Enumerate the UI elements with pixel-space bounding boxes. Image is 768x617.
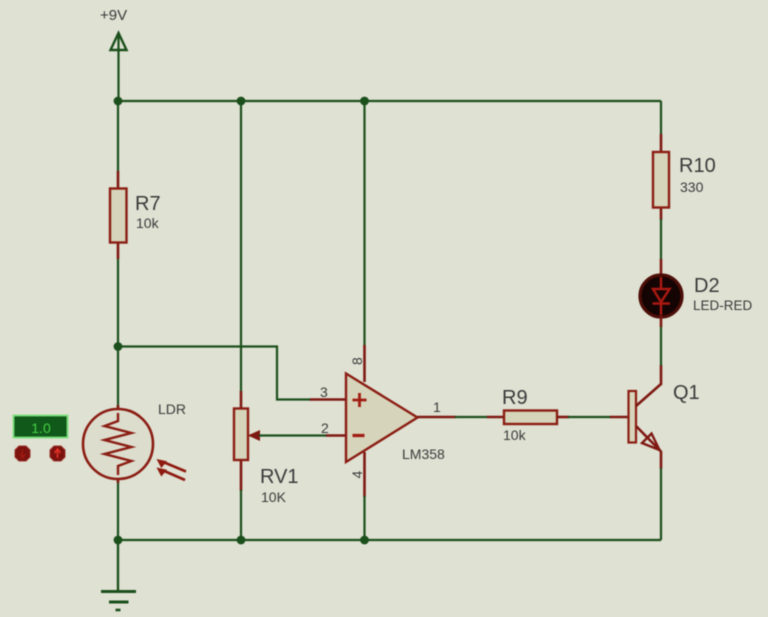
wire RV1 vertical upper [240,101,242,393]
button down [15,446,30,461]
ground [101,540,136,610]
svg-text:10k: 10k [503,427,527,443]
wire pin4 vertical [363,452,366,497]
wire bottom rail [118,539,661,541]
wire LED to collector [660,316,663,327]
svg-text:4: 4 [349,471,365,479]
power +9V arrow [111,33,127,50]
node junction bottom RV1 [237,536,246,545]
svg-text:10k: 10k [136,215,160,231]
svg-text:10K: 10K [261,489,287,505]
display 1.0 [14,416,68,438]
resistor R7 [110,171,127,259]
node junction bottom pin4 [360,536,369,545]
node junction rail pin8 [360,97,369,106]
svg-text:1.0: 1.0 [31,420,51,436]
LDR photoresistor [83,405,186,483]
svg-text:R9: R9 [502,387,528,409]
wire mid horizontal to pin3 [118,347,311,400]
node junction LDR top [114,342,123,351]
wire right vertical top [660,101,662,135]
wire R9 to base [557,416,569,419]
wire +9V stem [117,33,119,101]
svg-text:+9V: +9V [100,7,127,24]
resistor R9 [504,411,557,425]
node junction bottom-left [114,536,123,545]
svg-text:D2: D2 [694,275,720,297]
svg-text:RV1: RV1 [260,466,299,488]
svg-text:Q1: Q1 [673,382,700,404]
node junction top-left rail [114,97,123,106]
svg-text:3: 3 [320,384,328,400]
wire left vertical mid [117,259,119,410]
wire output pin1 [418,416,457,419]
op-amp U1 LM358 [346,374,418,463]
wire R10 to LED [660,219,662,260]
svg-text:R10: R10 [679,155,716,177]
potentiometer RV1 [234,391,260,491]
svg-text:R7: R7 [135,193,161,215]
svg-text:LDR: LDR [158,401,186,417]
svg-text:1: 1 [433,399,441,415]
wire collector up / emitter down [660,326,662,366]
wire left vertical lower [117,483,119,591]
svg-text:8: 8 [349,357,365,365]
transistor Q1 [629,365,662,469]
wire wiper to pin2 [259,434,327,436]
svg-text:2: 2 [321,420,329,436]
wire pin8 vertical [363,101,365,346]
svg-text:LED-RED: LED-RED [693,298,753,313]
wire top rail [118,100,661,102]
button up [50,446,65,461]
svg-text:LM358: LM358 [402,446,445,462]
resistor R10 [653,134,669,220]
svg-text:330: 330 [680,179,704,195]
wire RV1 vertical lower [240,490,242,540]
LED D2 [640,275,682,317]
wire left vertical upper [117,101,119,173]
node junction rail RV1 [237,97,246,106]
